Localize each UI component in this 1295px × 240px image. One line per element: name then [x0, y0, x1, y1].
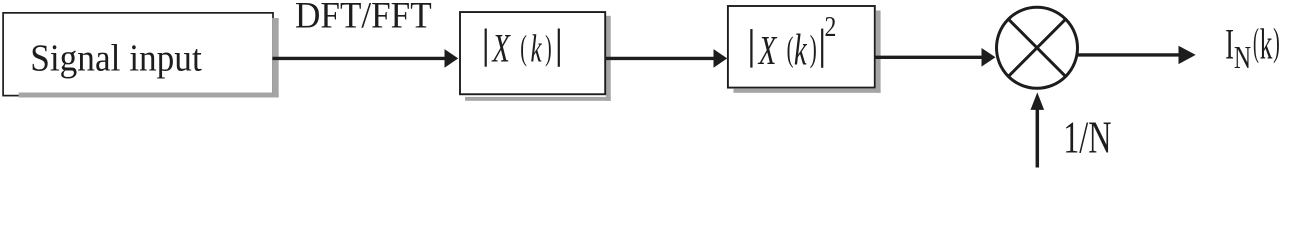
block B2 shadow: [606, 16, 611, 101]
wire arrow W1: B1 to B2: [273, 57, 446, 60]
svg-text:): ): [1273, 20, 1280, 64]
B3 (: [787, 30, 794, 69]
block B3 |X(k)|^2: [728, 6, 875, 88]
B3 ): [810, 28, 817, 68]
output label k: [1260, 21, 1273, 69]
output label I: [1225, 20, 1234, 69]
B2 k: [530, 28, 542, 71]
B3 X: [757, 27, 777, 73]
svg-text:X: X: [757, 27, 777, 73]
output label subscript N: [1234, 41, 1251, 76]
label DFT/FFT: [295, 0, 432, 35]
output label (: [1253, 20, 1259, 64]
svg-text:(: (: [787, 30, 794, 69]
block B1 shadow: [19, 93, 279, 98]
wire arrow W5: 1/N input from below: [1036, 109, 1040, 168]
B2 right bar: [558, 29, 560, 67]
svg-text:): ): [545, 29, 552, 67]
B3 k: [794, 26, 808, 74]
multiplier M1 circle: [997, 7, 1078, 88]
output label ): [1273, 20, 1280, 64]
svg-text:(: (: [520, 28, 527, 67]
block B3 shadow: [876, 11, 881, 93]
B3 right bar: [821, 29, 823, 68]
svg-text:DFT/FFT: DFT/FFT: [295, 0, 432, 35]
svg-text:k: k: [1260, 21, 1273, 69]
svg-text:): ): [810, 28, 817, 68]
wire arrow W3: B3 to multiplier: [876, 56, 984, 59]
B2 ): [545, 29, 552, 67]
B3 left bar: [750, 29, 752, 68]
svg-text:I: I: [1225, 20, 1234, 69]
svg-text:N: N: [1234, 41, 1251, 76]
multiplier M1 X stroke 1: [1008, 19, 1065, 76]
B2 (: [520, 28, 527, 67]
B2 left bar: [485, 29, 487, 67]
B2 X: [491, 26, 511, 71]
svg-text:X: X: [491, 26, 511, 71]
text "Signal input": [30, 36, 202, 78]
svg-text:2: 2: [825, 10, 837, 43]
svg-text:1/N: 1/N: [1063, 112, 1111, 163]
block B1 "Signal input": [3, 13, 273, 96]
label 1/N: [1063, 112, 1111, 163]
wire arrow W2: B2 to B3: [605, 57, 714, 60]
multiplier M1 X stroke 2: [1008, 19, 1065, 76]
svg-text:(: (: [1253, 20, 1259, 64]
B3 superscript 2: [825, 10, 837, 43]
svg-text:k: k: [530, 28, 542, 71]
block B2 |X(k)|: [460, 12, 605, 94]
svg-text:Signal input: Signal input: [30, 36, 202, 78]
svg-text:k: k: [794, 26, 808, 74]
wire arrow W4: multiplier to output: [1076, 53, 1180, 56]
